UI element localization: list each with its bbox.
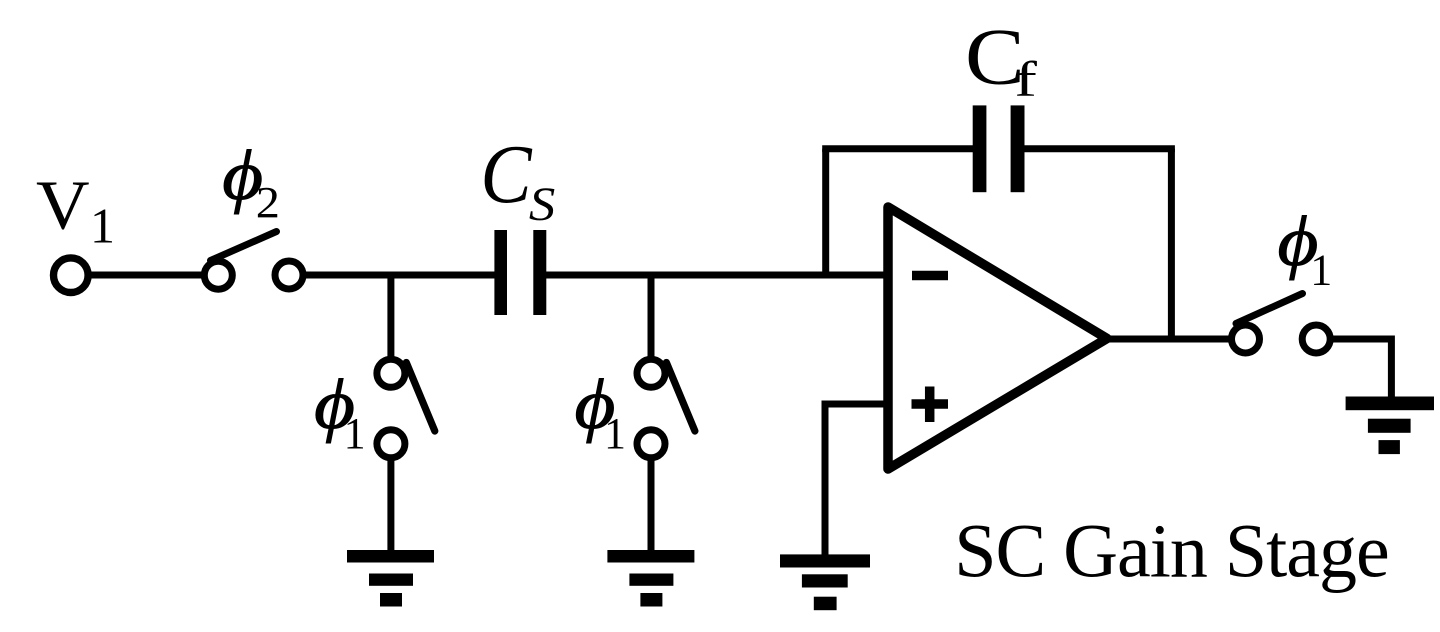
svg-text:1: 1 (604, 409, 626, 458)
wire switch to CS (305, 272, 496, 279)
switch S4 phi1 (1232, 294, 1331, 354)
pin minus (912, 271, 948, 281)
svg-text:C: C (480, 129, 533, 221)
label phi1 left (314, 365, 366, 458)
node B junction (648, 275, 655, 360)
wire input (88, 272, 203, 279)
ground G4 (1346, 397, 1434, 455)
svg-text:S: S (529, 177, 555, 230)
ground G2 (607, 550, 694, 607)
label phi1 out (1278, 202, 1333, 294)
terminal V1 (54, 258, 89, 293)
wire CS to opamp (544, 272, 886, 279)
switch S3 phi1 (637, 359, 695, 458)
wire output (1107, 336, 1231, 343)
wire feedback top left (822, 145, 974, 152)
label phi1 mid (575, 365, 627, 458)
wire S3 to ground (648, 456, 655, 552)
node A junction (387, 275, 394, 360)
wire output to ground corner (1330, 336, 1391, 399)
svg-text:1: 1 (1310, 245, 1332, 294)
label Cf (965, 13, 1037, 107)
label SC Gain Stage (954, 510, 1389, 594)
svg-text:1: 1 (344, 409, 366, 458)
switch S2 phi1 (377, 359, 435, 458)
switch S1 phi2 (204, 232, 303, 290)
ground G3 (780, 554, 870, 610)
wire S2 to ground (387, 456, 394, 552)
svg-text:f: f (1014, 52, 1037, 107)
wire feedback left vertical (822, 149, 829, 275)
label CS (480, 129, 555, 230)
label V1 (36, 167, 115, 254)
op-amp U1 (888, 207, 1107, 469)
capacitor CS (494, 230, 546, 315)
label phi2 (222, 136, 280, 227)
svg-text:2: 2 (256, 179, 280, 228)
wire plus input (825, 401, 886, 408)
wire feedback right vertical (1168, 149, 1175, 339)
pin plus (912, 387, 949, 423)
capacitor Cf (973, 105, 1025, 192)
svg-text:1: 1 (90, 198, 115, 254)
wire plus to ground (822, 401, 829, 557)
svg-text:SC Gain Stage: SC Gain Stage (954, 510, 1389, 594)
ground G1 (347, 550, 434, 607)
svg-text:V: V (36, 167, 90, 245)
wire feedback top right (1023, 145, 1175, 152)
